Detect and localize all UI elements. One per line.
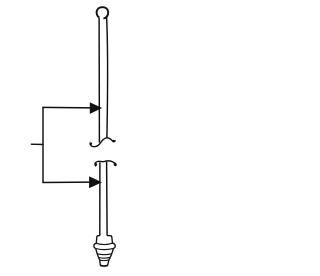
break squiggle at top of lower rod bbox=[95, 161, 116, 166]
arrowhead 1 bbox=[90, 103, 101, 113]
bracket vertical line bbox=[42, 107, 44, 182]
ink blob left end of lower break bbox=[94, 163, 97, 166]
arrowhead 2 bbox=[90, 177, 101, 187]
ink blob left end of upper break bbox=[90, 142, 93, 145]
break squiggle at bottom of upper rod bbox=[90, 138, 115, 147]
bracket top arm (arrow 1 shaft) bbox=[42, 106, 92, 109]
divider curve collar/bulge bbox=[96, 243, 112, 244]
bottom cup of base bbox=[100, 260, 109, 266]
ink blob right end of upper break bbox=[112, 140, 115, 143]
ink blob right end of lower break bbox=[114, 163, 117, 166]
collar (first wider section of base) bbox=[96, 236, 112, 244]
divider curve taper1/ring2 bbox=[97, 253, 112, 256]
bottom edge of cup bbox=[100, 264, 108, 267]
left stub on bracket bbox=[31, 143, 44, 145]
lower rod right line bbox=[106, 162, 109, 236]
divider curve ring3/cup bbox=[100, 259, 109, 262]
ring 2 bbox=[97, 254, 112, 258]
divider curve ring2/ring3 bbox=[99, 256, 111, 259]
lower rod left line bbox=[99, 162, 101, 236]
bracket bottom arm (arrow 2 shaft) bbox=[42, 181, 91, 183]
taper band 1 bbox=[96, 248, 114, 253]
divider curve bulge/taper1 bbox=[96, 248, 114, 249]
ball tip of antenna mast bbox=[97, 7, 109, 18]
ring 3 bbox=[99, 257, 111, 260]
upper mast rod left line bbox=[98, 18, 100, 143]
widest bulge band bbox=[94, 243, 115, 248]
upper mast rod right line bbox=[106, 17, 109, 138]
